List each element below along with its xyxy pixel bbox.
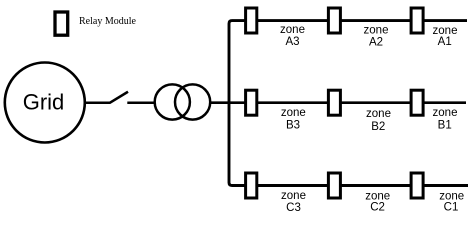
zone A3 label bbox=[280, 24, 305, 48]
relay module zone B3 bbox=[246, 90, 257, 115]
relay module zone C2 bbox=[328, 173, 340, 198]
svg-text:B2: B2 bbox=[371, 121, 385, 133]
relay module zone A2 bbox=[328, 8, 340, 33]
svg-text:C2: C2 bbox=[370, 202, 385, 214]
svg-text:zone: zone bbox=[439, 190, 464, 202]
wire transformer through bus, branch B feeder bbox=[210, 101, 466, 104]
relay module zone B1 bbox=[411, 90, 423, 115]
zone B1 label bbox=[433, 107, 458, 131]
wire switch to transformer bbox=[127, 101, 155, 104]
svg-text:A2: A2 bbox=[369, 37, 383, 49]
svg-text:zone: zone bbox=[281, 107, 306, 119]
zone A2 label bbox=[364, 24, 389, 48]
svg-text:C1: C1 bbox=[444, 202, 459, 214]
svg-text:zone: zone bbox=[364, 24, 389, 36]
zone C1 label bbox=[439, 190, 464, 213]
bus with top and bottom branch corners bbox=[229, 21, 468, 186]
svg-text:zone: zone bbox=[433, 107, 458, 119]
switch blade bbox=[110, 92, 128, 103]
svg-text:A1: A1 bbox=[438, 36, 452, 48]
svg-text:A3: A3 bbox=[285, 36, 299, 48]
svg-text:B1: B1 bbox=[438, 120, 452, 132]
svg-text:zone: zone bbox=[281, 190, 306, 202]
svg-text:Relay Module: Relay Module bbox=[79, 16, 136, 27]
transformer T1 secondary winding bbox=[175, 84, 210, 119]
wire grid to switch bbox=[85, 101, 111, 104]
relay module zone C3 bbox=[246, 173, 257, 198]
relay module zone C1 bbox=[411, 173, 423, 198]
zone A1 label bbox=[433, 25, 458, 48]
svg-text:zone: zone bbox=[365, 190, 390, 202]
svg-text:zone: zone bbox=[280, 24, 305, 36]
relay module zone A3 bbox=[246, 8, 257, 33]
transformer T1 primary winding bbox=[155, 84, 190, 119]
zone C3 label bbox=[281, 190, 306, 214]
zone B2 label bbox=[366, 108, 391, 133]
zone B3 label bbox=[281, 107, 306, 132]
svg-text:B3: B3 bbox=[286, 120, 300, 132]
svg-text:C3: C3 bbox=[286, 202, 301, 214]
relay module legend symbol bbox=[55, 12, 68, 35]
grid source circle bbox=[5, 63, 85, 143]
svg-text:Grid: Grid bbox=[23, 89, 65, 114]
svg-text:zone: zone bbox=[366, 108, 391, 120]
relay module zone B2 bbox=[328, 90, 340, 115]
relay module zone A1 bbox=[411, 8, 423, 33]
zone C2 label bbox=[365, 190, 390, 213]
